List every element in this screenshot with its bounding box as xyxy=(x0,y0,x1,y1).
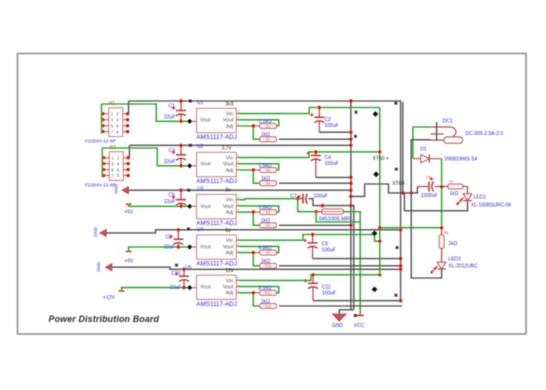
junction C1 bottom on Vout net xyxy=(179,120,182,123)
wire U5 Vout feedback to resistor xyxy=(239,287,279,293)
junction row4 Vin tap xyxy=(378,240,381,243)
resistor R12 1k&#937; xyxy=(260,304,277,309)
node net marker 5 xyxy=(175,264,178,267)
svg-text:Vout: Vout xyxy=(200,118,211,124)
svg-text:C3: C3 xyxy=(169,148,176,154)
svg-text:R6: R6 xyxy=(266,224,271,228)
junction C1 top on GND rail xyxy=(179,99,182,102)
node net marker 6 xyxy=(355,111,358,114)
svg-text:C5: C5 xyxy=(426,176,431,180)
svg-text:DC1: DC1 xyxy=(443,118,453,124)
LED LED2 XL-2012UBC xyxy=(441,248,443,262)
wire H2 to U2 Vout net xyxy=(102,148,188,166)
resistor R1 2.2k&#937; xyxy=(260,124,277,129)
power +5V xyxy=(126,203,132,205)
svg-text:1000uF: 1000uF xyxy=(421,193,438,199)
svg-text:VCC: VCC xyxy=(354,323,365,329)
svg-text:AMS1117-ADJ: AMS1117-ADJ xyxy=(196,261,237,268)
node U2 Vout pin arrow xyxy=(187,163,192,168)
wire +5V to C6/U3 Vout xyxy=(129,204,175,206)
svg-text:Vout: Vout xyxy=(200,244,211,250)
wire U5 Vin net xyxy=(239,275,380,281)
svg-text:U5: U5 xyxy=(185,265,192,271)
wire H1 to U1 Vout net xyxy=(102,104,189,121)
svg-text:Power Distribution Board: Power Distribution Board xyxy=(49,314,160,324)
capacitor C11 100uF output xyxy=(312,275,314,284)
node U5 Vout pin arrow xyxy=(187,285,192,290)
diode D1 1N5819WS xyxy=(413,155,442,163)
svg-text:LED2: LED2 xyxy=(448,257,461,263)
svg-text:AMS1117-ADJ: AMS1117-ADJ xyxy=(196,301,237,308)
resistor R7 1k&#937; xyxy=(442,186,448,188)
capacitor C3 22uF input xyxy=(180,145,182,155)
wire U4 Adj to resistor divider xyxy=(239,253,260,266)
node net marker 12 xyxy=(354,314,357,317)
wire row2 GND rail xyxy=(129,144,351,146)
wire H2 pin1 to GND rail xyxy=(128,145,130,157)
svg-text:Adj: Adj xyxy=(226,291,234,297)
svg-text:R3: R3 xyxy=(266,168,271,172)
junction U3 Adj node xyxy=(252,210,255,213)
svg-text:9v: 9v xyxy=(226,188,232,194)
svg-text:GND: GND xyxy=(93,227,98,237)
wire H2 left pin bus xyxy=(101,148,103,177)
capacitor C9 100uF output xyxy=(312,235,314,243)
wire U4 Vin net xyxy=(239,235,380,242)
power VCC symbol xyxy=(357,314,364,316)
svg-text:+9V: +9V xyxy=(124,258,134,264)
svg-text:22uF: 22uF xyxy=(164,244,175,250)
svg-text:Vout: Vout xyxy=(200,285,211,291)
junction XT60- to GND xyxy=(401,191,404,194)
svg-text:GND: GND xyxy=(114,184,119,194)
node XT60 pin arrow 3 xyxy=(372,231,378,237)
node U1 Vout pin arrow xyxy=(187,119,192,124)
resistor R6 1k&#937; xyxy=(260,223,277,228)
junction C11 top xyxy=(311,273,314,276)
svg-text:Vout: Vout xyxy=(223,204,234,210)
svg-text:Vin: Vin xyxy=(226,112,234,118)
svg-text:R4: R4 xyxy=(266,182,271,186)
wire R2 to GND bus xyxy=(279,138,351,140)
wire GND bus to ground symbol xyxy=(339,310,354,314)
svg-text:100uF: 100uF xyxy=(322,290,336,296)
wire U2 Adj to resistor divider xyxy=(239,170,260,183)
node net marker 9 xyxy=(395,168,398,171)
svg-text:Vin: Vin xyxy=(226,238,234,244)
svg-text:Adj: Adj xyxy=(226,124,234,130)
connector H2 pin header xyxy=(104,152,129,181)
svg-text:22uF: 22uF xyxy=(170,285,181,291)
node net marker 2 xyxy=(189,144,192,147)
svg-text:Vin: Vin xyxy=(226,198,234,204)
junction dots on GND buses xyxy=(349,99,402,302)
capacitor C6 22uF input xyxy=(180,190,182,200)
svg-text:F2254V-12-6P: F2254V-12-6P xyxy=(85,139,116,145)
wire R12 output xyxy=(279,305,402,307)
junction R8 top xyxy=(440,226,443,229)
op-amp U1 voltage regulator AMS1117-ADJ xyxy=(192,108,239,132)
node net marker 11 xyxy=(395,294,398,297)
node net marker 1 xyxy=(189,100,192,103)
capacitor C5 1000uF xyxy=(417,186,429,188)
wire LED2 cathode return to GND xyxy=(411,193,441,278)
svg-text:Adj: Adj xyxy=(226,210,234,216)
svg-text:C1: C1 xyxy=(169,104,176,110)
junction C5/R7 node xyxy=(440,185,443,188)
svg-text:GND: GND xyxy=(96,262,101,272)
junction H1 pins xyxy=(101,112,129,133)
svg-text:D1: D1 xyxy=(420,147,427,153)
svg-text:100uF: 100uF xyxy=(322,247,336,253)
wire +12V to C10/U5 Vout xyxy=(122,288,189,291)
svg-text:C6: C6 xyxy=(169,193,176,199)
svg-text:Vout: Vout xyxy=(223,162,234,168)
svg-text:U3: U3 xyxy=(197,186,204,192)
LED LED1 XL-1608SURC-06 xyxy=(463,187,468,194)
svg-text:+12V: +12V xyxy=(103,295,115,301)
svg-text:R11: R11 xyxy=(265,291,271,295)
svg-text:1N5819WS S4: 1N5819WS S4 xyxy=(444,156,477,162)
svg-text:1kΩ: 1kΩ xyxy=(450,191,459,197)
node U4 Vout pin arrow xyxy=(187,244,192,249)
power +12V xyxy=(119,290,125,292)
junction C7 left xyxy=(296,197,299,200)
svg-text:Vout: Vout xyxy=(200,162,211,168)
junction C10 top xyxy=(182,268,185,271)
wire H1 pin1 to GND rail xyxy=(128,101,130,114)
svg-text:Vout: Vout xyxy=(223,285,234,291)
wire R10 to right GND bus xyxy=(279,265,401,267)
junction C8 bottom xyxy=(177,245,180,248)
wire GND bus vertical x=351 xyxy=(350,101,352,310)
junction C6 top on GND rail xyxy=(179,189,182,192)
fuse F1 0451005.MRL xyxy=(316,211,322,213)
svg-text:XT60 -: XT60 - xyxy=(392,181,407,187)
node U3 Vout pin arrow xyxy=(187,204,192,209)
wire H1 left pin bus xyxy=(101,104,103,134)
junction DC jack sleeve to GND xyxy=(410,191,413,194)
svg-text:100uF: 100uF xyxy=(314,193,328,199)
svg-text:U1: U1 xyxy=(197,100,204,106)
junction C8 top xyxy=(177,228,180,231)
junction C3 top on GND rail xyxy=(179,144,182,147)
svg-text:R5: R5 xyxy=(266,211,271,215)
capacitor C8 22uF input xyxy=(177,230,179,239)
junction C9 top xyxy=(311,233,314,236)
capacitor C2 100uF output xyxy=(318,108,320,118)
svg-text:22uF: 22uF xyxy=(164,159,175,165)
svg-text:22uF: 22uF xyxy=(164,115,175,121)
junction C10 bottom xyxy=(182,286,185,289)
svg-text:R9: R9 xyxy=(266,251,271,255)
svg-text:U2: U2 xyxy=(197,144,204,150)
node net marker 7 xyxy=(354,135,357,138)
op-amp U3 voltage regulator AMS1117-ADJ xyxy=(192,195,239,219)
svg-text:22uF: 22uF xyxy=(164,199,175,205)
junction U5 Adj node xyxy=(252,291,255,294)
resistor R8 1k&#937; xyxy=(441,228,443,235)
wire U3 Vout feedback to resistor xyxy=(239,206,279,212)
wire U3 Vin net xyxy=(239,199,298,200)
wire row5 GND rail xyxy=(112,267,401,269)
svg-text:3v3: 3v3 xyxy=(226,101,234,107)
junction VCC net corner xyxy=(378,226,381,229)
wire C7 to GND bus and second GND drop xyxy=(309,199,354,310)
capacitor C4 100uF output xyxy=(315,152,317,156)
junction U4 Adj node xyxy=(252,251,255,254)
junction C6 bottom on Vout net xyxy=(179,205,182,208)
svg-text:LED1: LED1 xyxy=(474,195,487,201)
wire U3 Adj to resistor divider xyxy=(239,212,260,225)
node XT60 pin arrow 2 xyxy=(373,171,379,177)
node net marker 4 xyxy=(187,228,190,231)
ground GND bottom symbol xyxy=(332,314,346,321)
connector H1 pin header xyxy=(103,108,128,137)
junction C4 top xyxy=(314,150,317,153)
svg-text:Adj: Adj xyxy=(226,251,234,257)
wire R6 to GND bus xyxy=(279,224,351,226)
wire U2 Vin to VCC net xyxy=(239,152,380,158)
svg-text:Adj: Adj xyxy=(226,168,234,174)
wire to LED2 resistor xyxy=(380,227,442,229)
op-amp U5 voltage regulator AMS1117-ADJ xyxy=(192,275,239,299)
junction H2 pins xyxy=(102,156,130,177)
op-amp U4 voltage regulator AMS1117-ADJ xyxy=(192,235,239,259)
svg-text:100uF: 100uF xyxy=(325,123,339,129)
svg-text:XL-1608SURC-06: XL-1608SURC-06 xyxy=(471,202,512,208)
wire U4 Vout feedback to resistor xyxy=(239,246,279,252)
capacitor C7 100uF xyxy=(297,194,307,204)
wire DC1 positive down to D1 anode xyxy=(412,127,414,159)
wire R4 to GND bus xyxy=(279,182,351,184)
svg-text:C7: C7 xyxy=(290,193,297,199)
svg-text:6v: 6v xyxy=(226,228,232,234)
junction U1 Adj node xyxy=(252,124,255,127)
svg-text:R1: R1 xyxy=(266,124,271,128)
svg-text:+5V: +5V xyxy=(124,209,134,215)
ground GND row3 under H2 xyxy=(122,186,129,194)
node XT60 pin arrow 4 xyxy=(372,287,378,293)
svg-text:AMS1117-ADJ: AMS1117-ADJ xyxy=(196,178,237,185)
svg-text:3.7v: 3.7v xyxy=(222,145,232,151)
svg-text:100uF: 100uF xyxy=(325,161,339,167)
resistor R4 1k&#937; xyxy=(260,181,277,186)
connector DC1 barrel jack DC-005-2.5A-2.0 xyxy=(431,122,463,143)
wire VCC branch down to fuse xyxy=(298,199,316,212)
capacitor C10 22uF input xyxy=(183,269,185,276)
wire LED1 cathode return to GND xyxy=(404,193,467,211)
power +9V xyxy=(126,250,132,252)
wire VCC-XT60 net vertical x=379.8 xyxy=(379,108,381,275)
junction XT60+ pin xyxy=(378,150,381,153)
svg-text:R7: R7 xyxy=(450,180,454,184)
resistor R11 8.1k&#937; xyxy=(260,290,277,295)
wire VCC branch under fuse label xyxy=(316,212,360,222)
junction row5 Vin on VCC net xyxy=(378,273,381,276)
schematic frame border xyxy=(18,54,527,335)
svg-text:DC-005-2.5A-2.0: DC-005-2.5A-2.0 xyxy=(465,131,503,137)
resistor R5 3.6k&#937; xyxy=(260,210,277,215)
wire fuse to VCC net xyxy=(344,212,361,316)
node net marker 3 xyxy=(188,189,191,192)
resistor R9 6.8k&#937; xyxy=(260,250,277,255)
wire row4 GND rail xyxy=(106,230,400,233)
wire GND step to XT60- pin xyxy=(351,184,418,196)
wire row3 GND rail xyxy=(129,189,351,191)
wire row1 GND rail and right GND bus x=400.6 xyxy=(129,101,401,301)
node XT60 pin arrow 1 xyxy=(373,111,379,117)
svg-text:XL-2012UBC: XL-2012UBC xyxy=(448,263,478,269)
svg-text:R10: R10 xyxy=(265,264,272,268)
op-amp U2 voltage regulator AMS1117-ADJ xyxy=(192,152,239,176)
wire U1 Adj to resistor divider xyxy=(239,126,260,139)
junction U2 Adj node xyxy=(252,168,255,171)
wire DC1 tip to D1 xyxy=(413,126,431,128)
svg-text:AMS1117-ADJ: AMS1117-ADJ xyxy=(196,134,237,141)
wire U1 Vin to VCC net xyxy=(239,108,380,114)
svg-text:F2254V-12-6P: F2254V-12-6P xyxy=(85,183,116,189)
svg-text:Vout: Vout xyxy=(223,118,234,124)
svg-text:C8: C8 xyxy=(166,234,173,240)
svg-text:C10: C10 xyxy=(171,271,180,277)
wire DC1 sleeve to GND xyxy=(411,140,430,193)
svg-text:Vout: Vout xyxy=(223,244,234,250)
resistor R2 1k&#937; xyxy=(260,137,277,142)
wire U5 Adj to resistor divider xyxy=(239,293,260,306)
svg-text:XT60 +: XT60 + xyxy=(373,156,389,162)
svg-text:Vin: Vin xyxy=(226,156,234,162)
wire U2 Vout feedback to resistor xyxy=(239,164,279,170)
ground GND row4 xyxy=(100,229,107,237)
svg-text:R8: R8 xyxy=(444,231,448,235)
junction C2 top xyxy=(318,106,321,109)
capacitor C1 22uF input xyxy=(180,101,182,111)
junction C3 bottom on Vout net xyxy=(179,164,182,167)
resistor R3 2.5k&#937; xyxy=(260,168,277,173)
svg-text:U4: U4 xyxy=(197,227,204,233)
svg-text:R2: R2 xyxy=(266,138,271,142)
wire U1 Vout feedback to resistor xyxy=(239,120,279,126)
junction fuse input xyxy=(314,210,317,213)
node net marker 8 xyxy=(395,102,398,105)
svg-text:Vout: Vout xyxy=(200,204,211,210)
resistor R10 1k&#937; xyxy=(260,263,277,268)
svg-text:F1: F1 xyxy=(320,205,324,209)
wire D1 cathode net down xyxy=(441,159,443,228)
node net marker 10 xyxy=(396,246,399,249)
ground GND row5 xyxy=(105,263,112,271)
svg-text:12v: 12v xyxy=(226,268,235,274)
svg-text:GND: GND xyxy=(332,323,344,329)
svg-text:Vin: Vin xyxy=(226,278,234,284)
wire +9V to C8/U4 Vout xyxy=(129,247,188,251)
svg-text:R12: R12 xyxy=(265,304,272,308)
wire XT60- net vertical x=403 xyxy=(402,102,404,193)
svg-text:1kΩ: 1kΩ xyxy=(448,241,457,247)
